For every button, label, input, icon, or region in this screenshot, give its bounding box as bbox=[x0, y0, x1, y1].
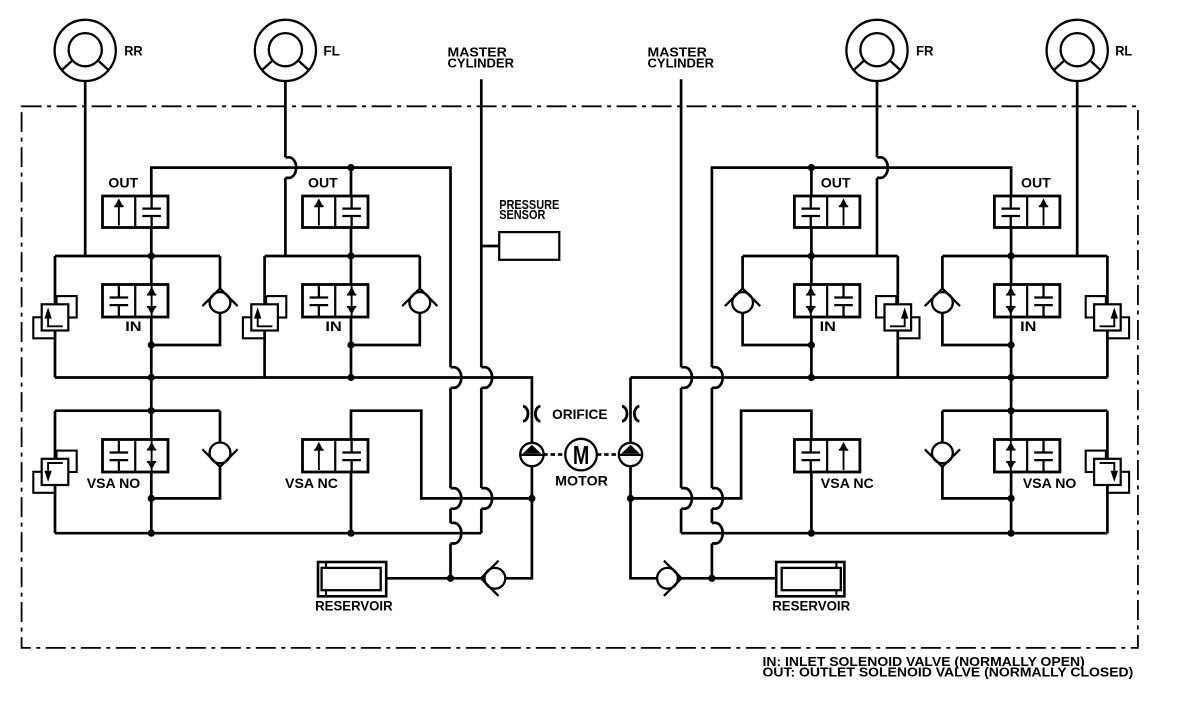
wire RL main line bbox=[1010, 228, 1013, 534]
wheel RR bbox=[55, 20, 116, 81]
svg-text:VSA NO: VSA NO bbox=[87, 475, 141, 491]
junction FL wheel node bbox=[347, 252, 354, 259]
junction pump suction left bbox=[528, 495, 535, 502]
wire inlet bus left bbox=[55, 378, 532, 444]
junction VSA check left bbox=[148, 495, 155, 502]
wire RR main line bbox=[150, 228, 153, 534]
wire FR relief loop bbox=[896, 256, 899, 378]
svg-text:OUT: OUT bbox=[108, 175, 138, 191]
svg-text:SENSOR: SENSOR bbox=[499, 207, 546, 222]
junction VSA top left bbox=[148, 407, 155, 414]
solenoid valve OUT (RL) bbox=[994, 196, 1060, 228]
junction VSA-NO bottom right bbox=[1008, 530, 1015, 537]
check valve (VSA NO right) bbox=[925, 443, 960, 467]
svg-text:MOTOR: MOTOR bbox=[555, 472, 608, 488]
check valve (right reservoir) bbox=[657, 561, 681, 596]
wire hop OUT-drop-left over suction link bbox=[451, 488, 462, 509]
wire VSA-NO-left relief loop bbox=[54, 411, 57, 534]
solenoid valve IN (RL) bbox=[994, 285, 1060, 318]
wire VSA-NO-right check loop bbox=[942, 411, 1011, 499]
wire VSA-NO-left check loop bbox=[151, 411, 220, 499]
wire RL wheel line bbox=[1076, 81, 1079, 256]
svg-text:VSA NC: VSA NC bbox=[285, 475, 338, 491]
junction pump suction right bbox=[627, 495, 634, 502]
check valve (VSA NO left) bbox=[202, 443, 237, 467]
wire FL main line bbox=[350, 168, 353, 378]
pressure sensor box bbox=[499, 232, 559, 260]
junction RR inlet bus bbox=[148, 374, 155, 381]
svg-text:IN: IN bbox=[325, 318, 341, 334]
wire FR main line bbox=[810, 168, 813, 378]
reservoir left bbox=[318, 562, 386, 596]
wire VSA-NC-right link bbox=[631, 411, 812, 499]
wire RL check-valve loop bbox=[942, 256, 1011, 345]
wire hop FL over OUT bus bbox=[285, 157, 296, 178]
relief valve (RL) bbox=[1086, 296, 1129, 338]
junction FL OUT-bus bbox=[347, 164, 354, 171]
motor shaft dashes bbox=[543, 453, 619, 456]
reservoir right bbox=[776, 562, 844, 596]
wire FL wheel node bus bbox=[265, 255, 420, 258]
junction FR check return bbox=[808, 341, 815, 348]
wire OUT return bus left bbox=[151, 168, 450, 579]
svg-text:OUT: OUT bbox=[1021, 175, 1051, 191]
wire RL wheel node bus bbox=[942, 255, 1107, 258]
orifice symbol left bbox=[523, 406, 540, 421]
wire hop FR over OUT bus bbox=[877, 157, 888, 178]
junction FR OUT-bus bbox=[808, 164, 815, 171]
check valve (FL inlet bypass) bbox=[402, 289, 437, 313]
relief valve (VSA NO left) bbox=[33, 451, 76, 493]
svg-text:FR: FR bbox=[916, 43, 934, 59]
dash-dot enclosure border bbox=[22, 106, 1138, 648]
junction FL check return bbox=[347, 341, 354, 348]
wire FR wheel node bus bbox=[743, 255, 898, 258]
relief valve (FL) bbox=[243, 296, 286, 338]
svg-text:OUT: OUTLET SOLENOID VALVE (NO: OUT: OUTLET SOLENOID VALVE (NORMALLY CLO… bbox=[763, 665, 1134, 680]
wire FR check-valve loop bbox=[743, 256, 812, 345]
wire RR check-valve loop bbox=[151, 256, 220, 345]
wire RR wheel node bus bbox=[55, 255, 220, 258]
junction RR check return bbox=[148, 341, 155, 348]
junction RR wheel node bbox=[148, 252, 155, 259]
wire hop MC-left over inlet bus bbox=[481, 367, 492, 388]
svg-text:CYLINDER: CYLINDER bbox=[448, 56, 515, 71]
wire FL relief loop bbox=[263, 256, 266, 378]
solenoid valve VSA NC (left) bbox=[303, 440, 369, 473]
svg-text:OUT: OUT bbox=[821, 175, 851, 191]
wheel FR bbox=[846, 20, 907, 81]
wire FL check-valve loop bbox=[351, 256, 420, 345]
check valve (RR inlet bypass) bbox=[202, 289, 237, 313]
solenoid valve VSA NO (right) bbox=[994, 440, 1060, 473]
wire hop OUT-drop-right over inlet bus bbox=[712, 367, 723, 388]
svg-text:IN: IN bbox=[820, 318, 836, 334]
wire RL relief loop bbox=[1106, 256, 1109, 378]
wire hop MC-right over suction link bbox=[681, 488, 692, 509]
junction VSA top right bbox=[1008, 407, 1015, 414]
junction VSA check right bbox=[1008, 495, 1015, 502]
wire MC feed bus left bbox=[55, 532, 481, 535]
wire RR relief loop bbox=[54, 256, 57, 378]
junction VSA-NC bottom left bbox=[347, 530, 354, 537]
solenoid valve OUT (FL) bbox=[303, 196, 369, 228]
wire VSA-NC-left link bbox=[351, 411, 532, 499]
junction RL wheel node bbox=[1008, 252, 1015, 259]
relief valve (FR) bbox=[876, 296, 919, 338]
wire hop OUT-drop-right over MC bus bbox=[712, 523, 723, 544]
wire reservoir line left bbox=[386, 577, 484, 580]
junction RL check return bbox=[1008, 341, 1015, 348]
svg-text:RESERVOIR: RESERVOIR bbox=[315, 598, 393, 614]
wheel FL bbox=[255, 20, 316, 81]
wire pressure sensor tap bbox=[481, 245, 499, 248]
wire reservoir line right bbox=[679, 577, 777, 580]
svg-text:ORIFICE: ORIFICE bbox=[552, 406, 607, 422]
wire hop OUT-drop-right over suction link bbox=[712, 488, 723, 509]
wire hop MC-left over suction link bbox=[481, 488, 492, 509]
wire MC feed bus right bbox=[681, 532, 1107, 535]
junction VSA-NC bottom right bbox=[808, 530, 815, 537]
wire VSA-NO-right relief loop bbox=[1106, 411, 1109, 534]
relief valve (VSA NO right) bbox=[1086, 451, 1129, 493]
wire VSA top node right bbox=[942, 409, 1107, 412]
wire master cylinder right bbox=[680, 79, 683, 533]
svg-text:RR: RR bbox=[124, 43, 143, 59]
wire hop MC-right over inlet bus bbox=[681, 367, 692, 388]
wire master cylinder left bbox=[480, 79, 483, 533]
svg-text:IN: IN bbox=[125, 318, 141, 334]
solenoid valve VSA NC (right) bbox=[794, 440, 860, 473]
wire pump-left outlet/suction bbox=[506, 466, 532, 578]
wire RR wheel line bbox=[84, 81, 87, 256]
svg-text:OUT: OUT bbox=[308, 175, 338, 191]
junction FL inlet bus bbox=[347, 374, 354, 381]
wire VSA-NC-left bottom stub bbox=[350, 472, 353, 533]
wire hop OUT-drop-left over MC bus bbox=[451, 523, 462, 544]
svg-text:RL: RL bbox=[1115, 43, 1132, 59]
svg-text:VSA NC: VSA NC bbox=[821, 475, 874, 491]
junction VSA-NO bottom left bbox=[148, 530, 155, 537]
junction OUT-drop reservoir right bbox=[708, 575, 715, 582]
solenoid valve IN (FR) bbox=[794, 285, 860, 318]
solenoid valve IN (FL) bbox=[303, 285, 369, 318]
svg-text:CYLINDER: CYLINDER bbox=[648, 56, 715, 71]
check valve (RL inlet bypass) bbox=[925, 289, 960, 313]
svg-text:FL: FL bbox=[323, 43, 340, 59]
pump right bbox=[619, 443, 642, 466]
pump left bbox=[520, 443, 543, 466]
wire FR wheel line bbox=[876, 81, 879, 256]
solenoid valve IN (RR) bbox=[103, 285, 169, 318]
check valve (left reservoir) bbox=[481, 561, 505, 596]
junction RL inlet bus bbox=[1008, 374, 1015, 381]
junction OUT-drop reservoir left bbox=[447, 575, 454, 582]
wire inlet bus right bbox=[631, 378, 1108, 444]
wire OUT return bus right bbox=[712, 168, 1011, 579]
check valve (FR inlet bypass) bbox=[725, 289, 760, 313]
wire VSA top node left bbox=[55, 409, 220, 412]
wire hop OUT-drop-left over inlet bus bbox=[451, 367, 462, 388]
svg-text:VSA NO: VSA NO bbox=[1023, 475, 1077, 491]
wheel RL bbox=[1047, 20, 1108, 81]
orifice symbol right bbox=[622, 406, 639, 421]
wire FL wheel line bbox=[284, 81, 287, 256]
svg-text:IN: IN bbox=[1020, 318, 1036, 334]
solenoid valve OUT (RR) bbox=[103, 196, 169, 228]
junction FR wheel node bbox=[808, 252, 815, 259]
svg-text:M: M bbox=[573, 440, 589, 470]
wire VSA-NC-right bottom stub bbox=[810, 472, 813, 533]
junction FR inlet bus bbox=[808, 374, 815, 381]
motor M1 bbox=[565, 439, 597, 471]
relief valve (RR) bbox=[33, 296, 76, 338]
solenoid valve OUT (FR) bbox=[794, 196, 860, 228]
svg-text:RESERVOIR: RESERVOIR bbox=[772, 598, 850, 614]
wire pump-right outlet/suction bbox=[631, 466, 657, 578]
solenoid valve VSA NO (left) bbox=[103, 440, 169, 473]
